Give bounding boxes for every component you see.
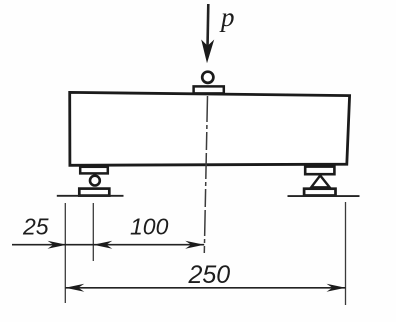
right support knife edge xyxy=(311,176,329,188)
dimension 250 arrow right xyxy=(327,284,346,292)
svg-text:100: 100 xyxy=(130,214,169,240)
left support roller xyxy=(90,176,100,186)
dimension 25 line xyxy=(12,244,93,246)
loading roller xyxy=(202,72,213,83)
svg-text:25: 25 xyxy=(22,214,49,240)
extension line left (beam end) xyxy=(64,203,66,303)
right support top plate xyxy=(305,167,334,175)
centerline xyxy=(204,96,207,253)
dimension 250 arrow left xyxy=(65,284,84,292)
extension line right xyxy=(345,202,347,305)
dimension 250 line xyxy=(65,287,345,289)
loading plate xyxy=(194,86,224,93)
left support base plate xyxy=(79,189,109,196)
svg-text:250: 250 xyxy=(188,261,231,289)
svg-text:p: p xyxy=(219,2,235,32)
dimension 100 line xyxy=(93,244,204,246)
dimension 25 arrow right xyxy=(48,241,67,249)
dimension 100 arrow right xyxy=(185,241,204,249)
left ground line xyxy=(57,195,124,197)
right ground line xyxy=(288,195,360,197)
left support top plate xyxy=(80,167,108,174)
right support base plate xyxy=(304,189,335,196)
dimension 100 arrow left xyxy=(93,241,112,249)
extension line left support xyxy=(92,203,94,261)
beam xyxy=(70,92,350,165)
force arrow P xyxy=(201,4,214,63)
